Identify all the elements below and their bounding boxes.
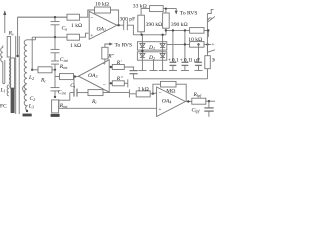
- resistor 10 kOhm feedback: [95, 7, 111, 13]
- wire Rc right: [52, 69, 55, 71]
- wire D2 box bottom mid to bar: [153, 60, 155, 70]
- bar under mid: [150, 70, 158, 72]
- hook L2 bottom: [23, 85, 26, 92]
- wire pair to FC: [1, 46, 5, 84]
- svg-text:D1: D1: [148, 45, 155, 51]
- node OA4 output: [187, 100, 189, 102]
- svg-text:30 kΩ: 30 kΩ: [212, 57, 215, 63]
- svg-text:FC: FC: [0, 104, 7, 110]
- svg-text:1 kΩ: 1 kΩ: [70, 43, 81, 49]
- node top rail: [54, 16, 56, 18]
- bar under col2: [159, 70, 167, 72]
- node C1 top: [172, 29, 174, 31]
- node plus input: [110, 66, 112, 68]
- svg-text:+: +: [90, 33, 93, 39]
- wire R'' to plate: [124, 82, 127, 84]
- svg-text:1 μF: 1 μF: [190, 58, 200, 64]
- svg-text:0.1: 0.1: [172, 57, 179, 63]
- diode box D2: [137, 52, 166, 60]
- cap column C3: [195, 44, 202, 70]
- wire top rail y17: [18, 16, 67, 18]
- node rail B end: [207, 29, 209, 31]
- bar under col1: [138, 70, 146, 72]
- wire 390k1 top to 33k: [141, 9, 150, 16]
- winding W1 (slim rectangle): [7, 37, 10, 58]
- capacitor Ca: [51, 17, 60, 37]
- svg-text:L2: L2: [28, 75, 34, 81]
- capacitor 300 pF: [122, 20, 134, 34]
- svg-text:−: −: [90, 16, 93, 22]
- resistor 1 kOhm lower: [67, 34, 80, 40]
- resistor Rd vertical: [52, 100, 59, 113]
- bar under C2: [181, 70, 189, 72]
- diode box D1: [137, 42, 166, 50]
- svg-text:Rc: Rc: [40, 78, 46, 84]
- svg-text:L1: L1: [0, 88, 6, 94]
- transformer core: [15, 36, 17, 114]
- svg-text:R′: R′: [116, 60, 122, 66]
- node column low: [54, 96, 56, 98]
- svg-text:−: −: [103, 83, 106, 89]
- node row2 left: [184, 43, 186, 45]
- winding L2 coil: [24, 40, 35, 111]
- svg-text:OA1: OA1: [97, 27, 106, 33]
- input arrow: [3, 10, 6, 33]
- svg-text:−: −: [158, 91, 161, 97]
- wire pot bottom: [104, 59, 106, 62]
- wire R' to cap: [124, 67, 133, 71]
- wire pot to arrow To RVS: [105, 43, 113, 48]
- resistor R'' row: [112, 81, 124, 86]
- svg-text:10 kΩ: 10 kΩ: [95, 2, 109, 8]
- wire drop from OA3 out: [73, 77, 75, 89]
- cap plate row3: [128, 89, 130, 97]
- cap column C1: [170, 30, 177, 70]
- svg-text:OA4: OA4: [162, 98, 171, 104]
- cap plate vertical: [127, 79, 129, 87]
- wire Rc left: [32, 69, 38, 71]
- resistor 10 kOhm row2: [190, 42, 204, 48]
- feedback riser OA4: [153, 84, 161, 93]
- wire OA3 minus input: [109, 82, 113, 84]
- svg-text:D2: D2: [148, 55, 155, 61]
- node coil bottom: [26, 110, 28, 112]
- wire zigzag to bottom rail: [59, 93, 70, 109]
- bar under C1: [169, 70, 177, 72]
- wire to OA1 inv input: [80, 16, 89, 18]
- wire row2 right: [167, 43, 211, 45]
- wire Rb to OA3: [74, 76, 80, 78]
- rail B: [166, 30, 208, 37]
- op-amp OA3 (points left): [79, 60, 110, 92]
- svg-text:Ri: Ri: [91, 99, 97, 105]
- node OA1 output: [117, 24, 119, 26]
- resistor 1 kOhm upper: [67, 14, 80, 20]
- diode D2b: [160, 54, 165, 58]
- resistor Ri: [88, 90, 103, 96]
- capacitor Cb lower pair: [51, 61, 59, 70]
- wire 390k2 stems: [165, 9, 167, 31]
- diode D1b: [160, 43, 165, 47]
- node second rail: [54, 36, 56, 38]
- svg-text:+: +: [211, 42, 214, 48]
- svg-text:+: +: [168, 58, 171, 64]
- node C2 top: [184, 29, 186, 31]
- svg-text:Rs: Rs: [8, 31, 14, 37]
- recorder RVS at right edge: [207, 9, 215, 52]
- svg-text:OA3: OA3: [88, 73, 97, 79]
- svg-text:R″: R″: [107, 54, 114, 60]
- capacitor Ci row: [74, 89, 77, 97]
- svg-text:L3: L3: [28, 104, 34, 110]
- node column mid: [54, 69, 56, 71]
- svg-text:+: +: [180, 58, 183, 64]
- bar under C3: [195, 70, 203, 72]
- ground bar Rd: [51, 114, 60, 117]
- node row2 right: [206, 43, 208, 45]
- svg-text:1 kΩ: 1 kΩ: [71, 23, 82, 29]
- svg-text:33 kΩ: 33 kΩ: [133, 3, 147, 9]
- wire 33k to arrow To RVS: [163, 9, 178, 15]
- bottom rail: [59, 107, 157, 109]
- op-amp OA4: [157, 87, 186, 117]
- wire Ri right: [103, 92, 129, 94]
- svg-text:C2: C2: [30, 96, 36, 102]
- wire 30k bottom to rail: [207, 69, 209, 79]
- cap column C2: [182, 30, 189, 70]
- node row2 cap column: [197, 43, 199, 45]
- mid rail y78.8: [134, 78, 208, 80]
- node OA3 output: [74, 75, 76, 77]
- wire corner top-left: [18, 17, 67, 56]
- wire col to Rb box: [55, 70, 60, 77]
- wire row left: [70, 92, 74, 94]
- node 390k2 bottom: [165, 29, 167, 31]
- diode D1a: [140, 43, 145, 47]
- small coil bumps bottom left: [7, 85, 9, 96]
- svg-text:+: +: [103, 62, 106, 68]
- svg-text:To RVS: To RVS: [180, 10, 198, 16]
- feedback riser: [88, 10, 95, 17]
- svg-text:Ca: Ca: [62, 25, 68, 31]
- potentiometer R'' vertical: [102, 47, 108, 59]
- resistor Rb box: [60, 74, 74, 80]
- wire 30k top: [207, 44, 209, 55]
- svg-text:To RVS: To RVS: [115, 42, 133, 48]
- OA1 output wire: [117, 24, 122, 26]
- wire OA3 plus input: [109, 66, 113, 68]
- node D1-D2 col1: [141, 50, 143, 52]
- resistor 10 kOhm top right: [190, 28, 204, 34]
- wire to OA1 non-inv input: [80, 33, 89, 37]
- svg-text:Cint: Cint: [60, 57, 69, 63]
- resistor 390 kOhm no.1: [138, 15, 145, 32]
- svg-text:Cint: Cint: [58, 90, 67, 96]
- node 390k2 top: [165, 8, 167, 10]
- rail A: [133, 34, 166, 36]
- resistor 390 kOhm no.2: [163, 13, 170, 28]
- ground bar coil: [23, 114, 32, 117]
- feedback wire right leg: [176, 84, 186, 101]
- resistor R lpf: [192, 98, 206, 104]
- op-amp OA1: [89, 11, 117, 39]
- winding dark bar: [11, 88, 15, 113]
- resistor 33 kOhm: [150, 6, 164, 12]
- node OA4 minus: [152, 92, 154, 94]
- svg-text:Ci: Ci: [70, 83, 75, 89]
- resistor 1 kOhm row3: [136, 91, 150, 97]
- resistor Rc: [38, 67, 52, 73]
- svg-text:+: +: [158, 107, 161, 113]
- svg-text:Rlpf: Rlpf: [193, 92, 203, 98]
- svg-text:390 kΩ: 390 kΩ: [171, 22, 188, 28]
- wire plate to 1k: [130, 93, 136, 95]
- svg-text:390 kΩ: 390 kΩ: [146, 22, 163, 28]
- diode D2a: [140, 54, 145, 58]
- capacitor Cb upper pair: [51, 37, 60, 61]
- node Rc left: [31, 69, 33, 71]
- wire rail A to D1 col1: [141, 35, 143, 71]
- wire second rail y37: [32, 36, 67, 38]
- capacitor C lpf: [204, 101, 213, 117]
- wire row to Ri: [77, 92, 88, 94]
- capacitor Cc2 lower: [51, 77, 60, 97]
- capacitor Cd: [130, 71, 138, 79]
- wire rail A to D1 col2: [162, 35, 164, 71]
- node rail A / 390k1: [141, 34, 143, 36]
- OA4 output wire: [185, 101, 191, 103]
- resistor R': [112, 65, 124, 70]
- wire 1k to OA4: [150, 93, 156, 94]
- node rail A col2: [161, 34, 163, 36]
- resistor 1 MOhm feedback: [161, 81, 177, 87]
- winding W2 scalloped: [9, 58, 14, 88]
- svg-text:R″: R″: [116, 76, 123, 82]
- riser coil top to rail2: [35, 37, 37, 40]
- node out: [208, 100, 210, 102]
- resistor 30 kOhm vertical: [205, 56, 211, 69]
- svg-text:Rint: Rint: [59, 64, 69, 70]
- svg-text:Clpf: Clpf: [192, 108, 201, 114]
- wire out right: [206, 100, 215, 102]
- feedback wire right: [111, 10, 119, 25]
- node (17.6,56): [16, 55, 18, 57]
- node minus input: [110, 82, 112, 84]
- wire 390k1 bottom: [140, 32, 142, 35]
- wire down from rail2: [31, 37, 33, 70]
